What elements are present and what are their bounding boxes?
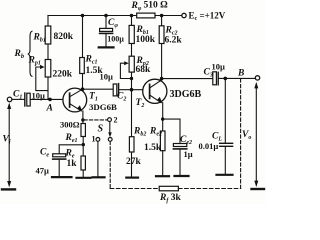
resistor Rb1' 100k — [129, 25, 134, 43]
wire top supply rail — [48, 15, 182, 17]
wire Rb2 to ground — [131, 152, 133, 177]
capacitor C_phi 100u — [105, 16, 107, 29]
arrow Vo bottom — [254, 181, 258, 187]
wire emitter2 node to Ce2 — [163, 119, 180, 143]
wire T1 collector node to C2 — [83, 88, 114, 90]
resistor Re 1k — [81, 156, 85, 170]
rheostat Rp1 220k — [45, 60, 51, 78]
wire Rp2 wiper loop — [120, 63, 131, 78]
wire emitter node to Ce — [59, 145, 83, 154]
ground Re2 — [156, 175, 169, 177]
wire Rp1 wiper loop — [36, 67, 48, 91]
svg-text:68k: 68k — [136, 65, 152, 75]
wire CL chain — [224, 78, 226, 142]
svg-text:1: 1 — [92, 135, 96, 144]
svg-text:10µ: 10µ — [212, 62, 226, 72]
wire C1 to T1 base — [30, 98, 63, 100]
svg-text:3DG6B: 3DG6B — [89, 102, 117, 112]
ground Rb2 — [126, 177, 138, 179]
switch S contact 2 — [108, 118, 112, 122]
node T1 emitter — [81, 118, 84, 121]
wire T2 collector to C3 — [162, 78, 213, 80]
wire dashed feedback up to B — [240, 79, 242, 189]
svg-text:100µ: 100µ — [107, 34, 124, 43]
capacitor Ce 47u — [53, 154, 66, 157]
svg-text:0.01µ: 0.01µ — [199, 141, 219, 151]
switch S blade arrow — [109, 122, 111, 134]
terminal B — [255, 76, 259, 80]
rheostat Rp2 68k — [129, 56, 134, 72]
wire T2 emitter down — [162, 103, 164, 131]
capacitor C3 10u — [213, 72, 217, 85]
ground CL — [217, 174, 233, 176]
wire between 100k and 68k — [131, 44, 133, 57]
resistor Rc1 1.5k — [82, 16, 84, 58]
svg-text:47µ: 47µ — [36, 166, 50, 176]
node rail-100k — [130, 14, 134, 18]
svg-text:1k: 1k — [67, 159, 78, 169]
switch S contact 1 — [96, 138, 100, 142]
transistor T2 3DG6B — [143, 79, 167, 103]
svg-text:3DG6B: 3DG6B — [170, 89, 202, 100]
node T2 base — [130, 88, 134, 92]
bar Vi bottom — [2, 188, 15, 190]
wire T1 collector up — [82, 74, 84, 90]
svg-text:27k: 27k — [126, 157, 142, 167]
resistor Rc2 6.2k — [161, 16, 163, 26]
node T1 collector — [81, 87, 85, 91]
wire 100k chain top — [131, 16, 133, 26]
capacitor C2 10u — [113, 84, 117, 96]
node rail-Cphi — [104, 14, 108, 18]
wire C3 to output terminal B — [218, 77, 255, 79]
node rail-Rc2 — [160, 14, 164, 18]
arrow Rp2 wiper — [124, 61, 129, 65]
arrow T1 emitter — [77, 105, 82, 112]
node C3-CL — [224, 77, 228, 81]
wire dashed feedback bottom left — [110, 188, 159, 190]
wire dashed feedback down — [109, 141, 111, 188]
wire T1 emitter down — [82, 111, 84, 124]
arrow Rp1 wiper — [40, 65, 45, 69]
node Re1-Re — [82, 143, 85, 146]
svg-text:Ec =+12V: Ec =+12V — [189, 11, 226, 23]
resistor Rb1 820k — [45, 26, 51, 44]
ground Ce2 — [175, 175, 189, 177]
node 68k wiper — [130, 77, 133, 80]
wire base node down to Rb2 — [131, 90, 133, 137]
svg-text:10µ: 10µ — [32, 91, 46, 101]
svg-text:220k: 220k — [53, 70, 73, 80]
arrow Vi measure — [8, 105, 10, 185]
resistor Rb2 27k — [129, 137, 134, 152]
svg-text:820k: 820k — [54, 32, 74, 42]
arrow switch blade — [108, 132, 112, 137]
bar Vo bottom — [252, 188, 265, 190]
ground Ce — [52, 176, 72, 178]
resistor R_phi 510 ohm — [137, 13, 155, 18]
arrow T2 emitter — [157, 97, 162, 103]
node T2 collector — [160, 77, 164, 81]
wire between Rb1 and Rp1 — [47, 44, 49, 60]
node T2 emitter — [161, 117, 164, 120]
wire Rp1 bottom to node A — [47, 77, 49, 99]
ground C_phi — [99, 46, 114, 48]
svg-text:510 Ω: 510 Ω — [144, 1, 169, 11]
wire contact1 to ground — [97, 141, 99, 176]
wire R_b1 chain top — [47, 16, 49, 27]
wire T2 collector up — [161, 44, 163, 81]
svg-text:2: 2 — [114, 116, 118, 125]
arrow Vi top — [7, 103, 11, 109]
wire dashed emitter to switch contact 2 — [84, 119, 107, 121]
terminal Ec — [182, 13, 186, 17]
svg-text:Rf 3k: Rf 3k — [159, 193, 181, 204]
ground switch — [93, 176, 105, 178]
resistor Re2 1.5k — [160, 131, 165, 151]
arrow Vo top — [254, 82, 258, 88]
brace Rb — [28, 31, 33, 77]
svg-text:10µ: 10µ — [100, 72, 114, 82]
arrow Vi bottom — [7, 181, 11, 187]
switch S pole — [108, 138, 112, 142]
node rail-Rc1 — [81, 14, 85, 18]
wire input to C1 — [12, 98, 24, 100]
wire 68k bottom to T2 base node — [131, 72, 133, 90]
resistor Re1 300ohm — [81, 124, 85, 137]
svg-text:A: A — [46, 104, 53, 114]
capacitor C1 10u — [24, 93, 26, 106]
arrowheads — [7, 61, 258, 187]
wire dashed feedback bottom right — [178, 188, 240, 190]
ground Re — [77, 177, 91, 179]
svg-text:B: B — [237, 69, 244, 79]
svg-text:100k: 100k — [136, 35, 156, 45]
svg-text:6.2k: 6.2k — [165, 36, 183, 46]
svg-text:1.5k: 1.5k — [144, 143, 162, 153]
wire Re to ground — [82, 170, 84, 177]
capacitor Ce2 1u — [173, 144, 186, 147]
wire Re1 to Re — [82, 137, 84, 157]
arrow Vo measure — [255, 84, 257, 185]
terminal input Vi — [7, 97, 12, 102]
resistor Rf 3k — [159, 186, 178, 191]
svg-text:S: S — [98, 124, 104, 135]
node A — [48, 98, 52, 102]
capacitor CL 0.01u — [220, 142, 233, 144]
svg-text:300Ω: 300Ω — [60, 120, 80, 130]
transistor T1 3DG6B — [63, 88, 87, 112]
wire C2 to T2 base — [119, 89, 143, 91]
svg-text:1µ: 1µ — [184, 149, 193, 159]
